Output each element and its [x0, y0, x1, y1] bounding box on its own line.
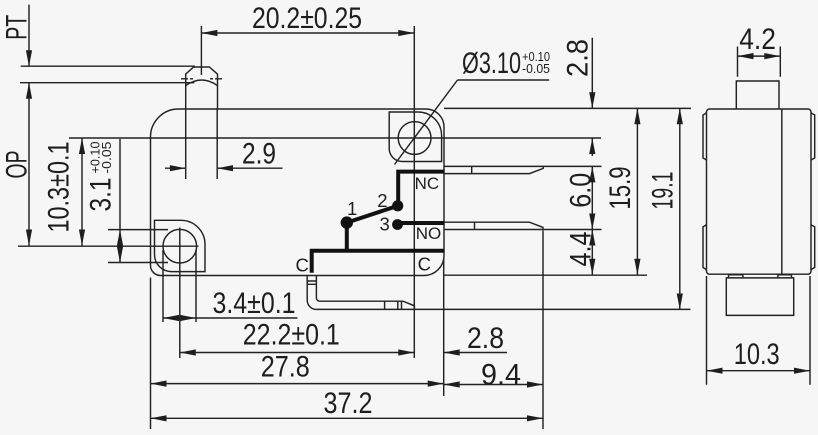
svg-text:3.4±0.1: 3.4±0.1: [213, 287, 296, 320]
svg-text:NO: NO: [416, 224, 442, 243]
svg-text:22.2±0.1: 22.2±0.1: [243, 319, 340, 352]
svg-text:-0.05: -0.05: [522, 62, 550, 76]
svg-text:2.9: 2.9: [242, 138, 276, 171]
svg-text:OP: OP: [1, 151, 34, 179]
svg-text:3: 3: [380, 213, 390, 234]
svg-text:2.8: 2.8: [562, 39, 595, 77]
svg-text:-0.05: -0.05: [100, 141, 114, 173]
svg-text:9.4: 9.4: [481, 359, 521, 392]
svg-text:NC: NC: [415, 174, 440, 193]
svg-text:19.1: 19.1: [646, 172, 679, 210]
svg-text:4.4: 4.4: [565, 232, 598, 267]
svg-text:4.2: 4.2: [739, 23, 776, 56]
svg-text:10.3±0.1: 10.3±0.1: [43, 142, 76, 233]
svg-text:2: 2: [377, 190, 387, 211]
svg-text:20.2±0.25: 20.2±0.25: [252, 2, 362, 35]
svg-text:Ø3.10: Ø3.10: [462, 47, 521, 80]
svg-text:C: C: [418, 253, 431, 274]
svg-text:2.8: 2.8: [467, 322, 504, 355]
svg-text:PT: PT: [1, 15, 34, 40]
svg-text:1: 1: [347, 198, 357, 219]
svg-text:10.3: 10.3: [734, 338, 780, 371]
svg-text:C: C: [296, 255, 309, 276]
svg-text:27.8: 27.8: [261, 351, 310, 384]
svg-text:3.1: 3.1: [85, 178, 118, 212]
svg-text:15.9: 15.9: [604, 167, 637, 210]
svg-text:37.2: 37.2: [324, 387, 373, 420]
svg-text:6.0: 6.0: [565, 173, 598, 208]
